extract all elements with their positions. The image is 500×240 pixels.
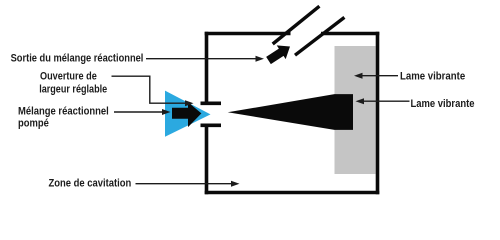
arrowhead: lame vibrante lower xyxy=(356,98,365,104)
nozzle bottom plate xyxy=(201,123,222,127)
inlet blue jet triangle xyxy=(165,91,211,137)
label line: lame vibrante upper xyxy=(363,75,399,77)
outlet flow thick arrow xyxy=(266,45,290,64)
arrowhead: ouverture label xyxy=(185,100,194,106)
inlet flow thick black arrow xyxy=(172,102,201,127)
chamber wall: left wall upper segment xyxy=(205,32,209,103)
svg-text:Ouverture de: Ouverture de xyxy=(40,70,97,82)
label line: zone de cavitation xyxy=(136,183,232,185)
vibrating blade wedge xyxy=(228,94,353,130)
svg-text:pompé: pompé xyxy=(18,118,49,130)
chamber wall: right wall xyxy=(376,32,380,195)
svg-text:Lame vibrante: Lame vibrante xyxy=(400,70,465,82)
label line: melange reactionnel pompe xyxy=(114,111,162,113)
nozzle top plate xyxy=(201,101,222,105)
chamber wall: left wall lower segment xyxy=(205,126,209,195)
chamber wall: bottom edge xyxy=(205,191,380,195)
outlet pipe line right xyxy=(295,17,344,55)
arrowhead: zone label xyxy=(231,181,240,187)
outlet pipe line left xyxy=(273,6,320,44)
arrowhead: lame vibrante upper xyxy=(354,73,363,79)
chamber wall: top edge left segment xyxy=(205,32,291,36)
arrowhead: sortie label xyxy=(256,56,265,62)
chamber wall: top edge right segment xyxy=(321,32,379,36)
label line: lame vibrante lower xyxy=(364,100,410,102)
arrowhead: melange label xyxy=(162,109,171,115)
svg-text:Sortie du mélange réactionnel: Sortie du mélange réactionnel xyxy=(11,53,144,65)
svg-text:Mélange réactionnel: Mélange réactionnel xyxy=(18,106,109,118)
label line: sortie du melange reactionnel xyxy=(146,58,256,60)
label line: ouverture de largeur reglable xyxy=(112,76,186,103)
svg-text:largeur réglable: largeur réglable xyxy=(39,83,107,95)
gray blade holder block xyxy=(335,46,376,174)
svg-text:Lame vibrante: Lame vibrante xyxy=(411,98,475,110)
svg-text:Zone de cavitation: Zone de cavitation xyxy=(49,177,132,189)
